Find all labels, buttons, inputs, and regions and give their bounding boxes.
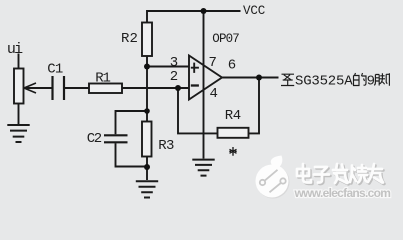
svg-text:9: 9 — [367, 74, 375, 90]
svg-text:www.elecfans.com: www.elecfans.com — [294, 186, 391, 200]
svg-text:VCC: VCC — [243, 4, 265, 18]
svg-text:C2: C2 — [87, 131, 102, 147]
svg-text:C1: C1 — [47, 62, 63, 78]
svg-text:ui: ui — [7, 41, 23, 58]
svg-text:R3: R3 — [158, 138, 174, 154]
svg-text:2: 2 — [170, 69, 178, 85]
svg-text:R2: R2 — [121, 31, 138, 47]
svg-text:R1: R1 — [95, 70, 110, 86]
svg-text:7: 7 — [209, 55, 217, 71]
svg-text:4: 4 — [210, 86, 218, 102]
svg-text:R4: R4 — [225, 108, 241, 124]
svg-text:SG3525A: SG3525A — [295, 74, 353, 90]
svg-text:6: 6 — [228, 57, 236, 73]
svg-text:OP07: OP07 — [212, 32, 239, 46]
